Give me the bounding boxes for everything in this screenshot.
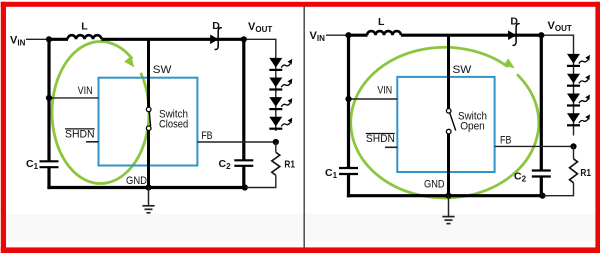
svg-text:VIN: VIN [78, 85, 93, 97]
wire bottom rail [347, 194, 543, 197]
LED D2 [269, 78, 282, 88]
LED string (4 LEDs) [567, 54, 590, 136]
diode D [210, 20, 222, 49]
node FB junction [570, 143, 576, 149]
svg-text:SHDN: SHDN [366, 133, 395, 145]
pin SHDN stub [385, 146, 397, 148]
wire V_IN lead [326, 34, 349, 36]
node VIN junction top-left [345, 32, 351, 38]
resistor R1 [246, 142, 295, 188]
wire left column [47, 39, 50, 161]
svg-text:Open: Open [460, 121, 485, 133]
diode D [508, 16, 520, 46]
wire SW column upper [447, 35, 450, 108]
wire top rail mid segment [401, 34, 541, 37]
node bottom junction C2/R1 [539, 193, 545, 199]
svg-text:GND: GND [424, 178, 445, 190]
inductor L [68, 35, 102, 39]
capacitor C1 [26, 158, 59, 171]
wire VIN pin [49, 97, 99, 99]
wire VOUT column [242, 39, 245, 160]
inductor L [367, 31, 401, 35]
capacitor C2 [219, 158, 254, 171]
wire left column [347, 35, 350, 168]
pin label SHDN (overline) [366, 133, 395, 145]
wire bottom rail [47, 186, 246, 189]
switch (closed) [146, 107, 151, 130]
wire V_IN lead [26, 38, 49, 40]
svg-text:D: D [510, 16, 518, 28]
pin SHDN stub [86, 141, 99, 143]
capacitor C1 [325, 167, 358, 180]
wire SW column lower (GND) [147, 130, 150, 187]
svg-text:L: L [378, 16, 385, 28]
node VIN pin junction [345, 96, 351, 102]
wire VIN pin [349, 98, 398, 100]
svg-text:R1: R1 [284, 158, 295, 170]
svg-text:SHDN: SHDN [65, 128, 95, 140]
svg-text:VIN: VIN [377, 85, 392, 97]
red border frame [1, 2, 6, 253]
svg-text:L: L [81, 21, 88, 33]
pin label SHDN (overline) [65, 128, 95, 140]
wire FB [197, 141, 275, 143]
svg-text:R1: R1 [580, 167, 591, 179]
loop arrow (input current loop) [52, 41, 149, 183]
LED D4 [567, 113, 580, 123]
node FB junction [273, 139, 279, 145]
node GND junction [145, 184, 151, 190]
LED D2 [567, 74, 580, 84]
resistor R1 [543, 146, 591, 195]
LED D3 [269, 97, 282, 107]
node VIN junction top-left [46, 36, 52, 42]
node bottom junction C2/R1 [242, 184, 248, 190]
wire SW column lower (GND) [447, 134, 450, 196]
IC box U1 [397, 77, 494, 172]
svg-text:FB: FB [500, 135, 511, 147]
panel divider [303, 5, 305, 248]
wire FB [495, 145, 574, 147]
wire top rail left segment [347, 34, 368, 37]
LED D4 [269, 117, 282, 127]
switch (open) [446, 109, 455, 134]
wire SW column upper [147, 39, 150, 107]
LED D3 [567, 94, 580, 104]
capacitor C2 [514, 171, 551, 184]
svg-text:GND: GND [126, 175, 147, 187]
svg-text:Closed: Closed [159, 119, 188, 131]
wire VOUT stub to LED string [541, 35, 573, 54]
node GND junction [445, 193, 451, 199]
svg-text:SW: SW [153, 64, 172, 76]
svg-text:FB: FB [201, 130, 212, 142]
wire VOUT column [540, 35, 543, 170]
IC box U1 [99, 78, 198, 166]
wire top rail left segment [47, 38, 68, 41]
node VIN pin junction [46, 95, 52, 101]
LED string (4 LEDs) [269, 58, 292, 131]
svg-text:SW: SW [453, 64, 472, 76]
svg-text:D: D [212, 20, 220, 32]
loop arrow (output current loop) [351, 47, 539, 198]
ground [442, 196, 454, 224]
ground [142, 188, 154, 213]
node VOUT junction [241, 36, 247, 42]
node VOUT junction [538, 32, 544, 38]
wire VOUT stub to LED string [244, 39, 276, 58]
wire top rail mid segment [102, 38, 244, 41]
LED D1 [269, 58, 282, 68]
LED D1 [567, 54, 580, 64]
